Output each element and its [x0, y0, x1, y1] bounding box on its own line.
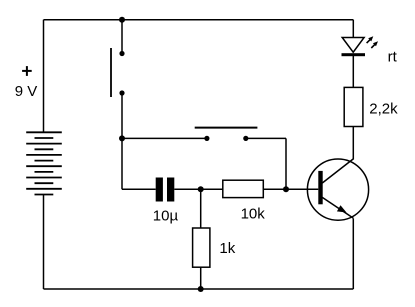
switch S1 pushbutton (vertical, open)	[111, 48, 125, 97]
wire resistor 2,2k to transistor collector	[352, 127, 354, 160]
transistor Q1 NPN circle	[307, 159, 368, 220]
wire switch S2 right contact to corner	[246, 137, 286, 139]
wire switch S1 feed from top rail	[121, 20, 123, 54]
LED D1 anode triangle	[342, 38, 364, 53]
wire corner down to node C	[285, 138, 287, 189]
capacitor C1 10µ	[156, 178, 175, 202]
svg-text:10µ: 10µ	[153, 207, 179, 224]
LED light arrow 2	[371, 41, 378, 48]
svg-text:10k: 10k	[241, 206, 266, 223]
svg-text:9 V: 9 V	[15, 83, 38, 100]
node B junction	[198, 186, 204, 192]
svg-text:1k: 1k	[219, 240, 235, 257]
wire left rail upper (battery +)	[43, 20, 45, 133]
transistor Q1 emitter arrowhead	[337, 205, 347, 212]
wire bottom rail	[44, 288, 354, 290]
resistor R3 1k	[193, 228, 210, 267]
transistor Q1 collector line	[322, 159, 353, 183]
LED D1 cathode bar	[342, 53, 366, 56]
wire node C to transistor base	[286, 188, 318, 190]
wire switch S1 to node A	[121, 93, 123, 138]
resistor R1 2,2k	[344, 87, 363, 126]
transistor Q1 emitter line	[322, 197, 353, 218]
wire node A to switch S2 left contact	[122, 137, 207, 139]
node C junction	[283, 186, 289, 192]
wire left rail lower (battery -)	[43, 195, 45, 290]
wire LED cathode to resistor 2,2k	[352, 56, 354, 87]
battery 9 V	[26, 132, 62, 194]
switch S2 pushbutton (horizontal, open)	[195, 128, 258, 141]
LED light arrow 1	[367, 36, 374, 43]
wire resistor 10k right to node C	[263, 188, 286, 190]
node junction top rail / S1	[119, 17, 125, 23]
label battery plus sign	[22, 66, 32, 76]
wire capacitor right plate to node B	[174, 188, 223, 190]
wire node A down to capacitor level	[121, 138, 123, 189]
svg-text:2,2k: 2,2k	[369, 100, 398, 117]
transistor Q1 base bar	[318, 171, 322, 204]
wire top rail	[44, 19, 354, 21]
wire resistor 1k to bottom rail	[200, 267, 202, 289]
node A junction	[119, 135, 125, 141]
resistor R2 10k	[223, 180, 263, 197]
wire transistor emitter to bottom rail	[352, 218, 354, 289]
node bottom rail / R3	[198, 286, 204, 292]
wire to capacitor left plate	[122, 188, 156, 190]
wire node B down to resistor 1k	[200, 189, 202, 228]
wire node B to resistor 10k left	[201, 188, 223, 190]
wire LED anode from top rail	[352, 20, 354, 38]
svg-text:rt: rt	[388, 49, 398, 66]
